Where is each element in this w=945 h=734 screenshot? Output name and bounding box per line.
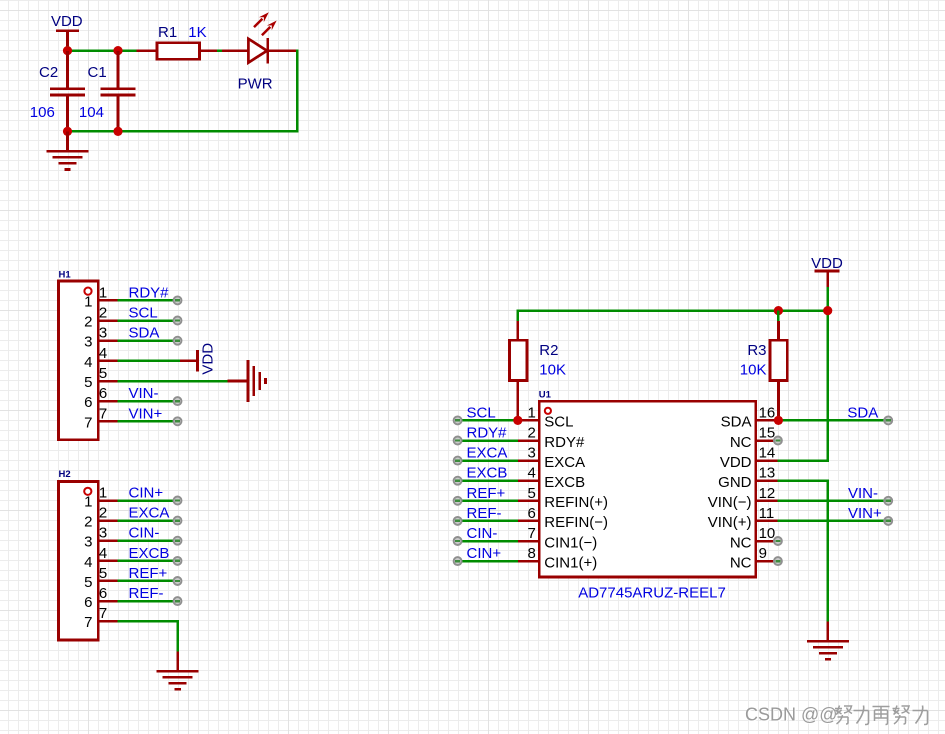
power symbol VDD (rotated, H1 pin4) bbox=[180, 343, 217, 375]
svg-text:CIN1(+): CIN1(+) bbox=[544, 554, 597, 571]
pin pad H2-2 bbox=[174, 517, 182, 525]
U1 pin 5 (REFIN(+)) bbox=[518, 485, 608, 511]
resistor R2 bbox=[510, 321, 527, 420]
H1 pin 4 bbox=[84, 345, 117, 371]
svg-text:CIN-: CIN- bbox=[129, 525, 160, 542]
junction R3/pin16 bbox=[774, 416, 783, 425]
wire VDD rail horizontal bbox=[517, 309, 829, 312]
svg-text:NC: NC bbox=[730, 554, 752, 571]
svg-text:10: 10 bbox=[759, 525, 776, 542]
wire H2 pin 7 to ground bbox=[118, 620, 179, 623]
ground lead bbox=[228, 380, 247, 383]
svg-text:6: 6 bbox=[527, 505, 535, 522]
H2 pin 5 bbox=[84, 565, 117, 591]
svg-text:CIN+: CIN+ bbox=[129, 485, 164, 502]
svg-text:VIN-: VIN- bbox=[129, 385, 159, 402]
wire VIN+ (pin11) bbox=[777, 520, 888, 523]
capacitor C1 bbox=[101, 51, 136, 131]
wire H1 pin 4 to VDD bbox=[118, 360, 180, 363]
svg-text:VIN-: VIN- bbox=[848, 485, 878, 502]
svg-text:SCL: SCL bbox=[544, 414, 573, 431]
U1 pin 14 (VDD) bbox=[720, 445, 777, 471]
svg-text:1: 1 bbox=[527, 404, 535, 421]
pin pad H2-6 bbox=[174, 597, 182, 605]
junction rail/R3 bbox=[774, 306, 783, 315]
svg-text:3: 3 bbox=[527, 445, 535, 462]
wire VDD (pin14) bbox=[777, 459, 829, 462]
svg-text:R3: R3 bbox=[747, 342, 766, 359]
svg-text:6: 6 bbox=[99, 385, 107, 402]
U1 pin 15 (NC) bbox=[730, 425, 777, 451]
wire H1 pin 1 bbox=[118, 299, 178, 302]
svg-text:106: 106 bbox=[30, 104, 55, 121]
U1 pin 12 (VIN(−)) bbox=[708, 485, 778, 511]
svg-text:VIN+: VIN+ bbox=[129, 405, 163, 422]
pin pad U1-15 bbox=[774, 437, 782, 445]
ground lead bbox=[176, 652, 179, 670]
wire U1 pin 4 bbox=[458, 479, 518, 482]
pin pad H2-5 bbox=[174, 577, 182, 585]
ground (below H2) bbox=[157, 670, 199, 691]
U1 pin 7 (CIN1(−)) bbox=[518, 525, 597, 551]
connector H2 bbox=[58, 482, 98, 641]
svg-text:VIN(+): VIN(+) bbox=[708, 514, 752, 531]
H1 pin 1 mark bbox=[84, 288, 91, 295]
pin pad H1-1 bbox=[174, 296, 182, 304]
power symbol VDD (top-right) bbox=[811, 255, 843, 289]
svg-text:H2: H2 bbox=[59, 469, 71, 480]
U1 pin 1 (SCL) bbox=[518, 404, 574, 430]
svg-text:RDY#: RDY# bbox=[467, 425, 508, 442]
capacitor C2 bbox=[50, 51, 85, 131]
svg-text:SCL: SCL bbox=[129, 305, 158, 322]
svg-text:16: 16 bbox=[759, 404, 776, 421]
svg-text:1: 1 bbox=[84, 293, 92, 310]
svg-text:REFIN(+): REFIN(+) bbox=[544, 494, 608, 511]
svg-text:7: 7 bbox=[527, 525, 535, 542]
pin pad U1-7 bbox=[454, 537, 462, 545]
resistor R3 bbox=[770, 321, 787, 420]
H2 pin 6 bbox=[84, 585, 117, 611]
U1 pin 3 (EXCA) bbox=[518, 445, 585, 471]
connector H1 bbox=[58, 281, 98, 440]
ground (bottom right) bbox=[807, 640, 849, 661]
wire bottom return bbox=[66, 130, 298, 133]
svg-text:4: 4 bbox=[99, 545, 107, 562]
svg-text:5: 5 bbox=[99, 565, 107, 582]
svg-text:4: 4 bbox=[527, 465, 535, 482]
U1 pin 9 (NC) bbox=[730, 545, 777, 571]
svg-text:1: 1 bbox=[84, 494, 92, 511]
svg-text:H1: H1 bbox=[59, 269, 72, 280]
U1 pin 1 mark bbox=[545, 408, 551, 414]
svg-text:3: 3 bbox=[84, 334, 92, 351]
pin pad H1-2 bbox=[174, 317, 182, 325]
pin pad H2-3 bbox=[174, 537, 182, 545]
svg-text:REF+: REF+ bbox=[129, 565, 168, 582]
wire rail to R3 bbox=[777, 311, 780, 322]
wire U1 pin 2 bbox=[458, 439, 518, 442]
svg-text:5: 5 bbox=[527, 485, 535, 502]
svg-text:PWR: PWR bbox=[238, 75, 273, 92]
svg-text:R1: R1 bbox=[158, 24, 177, 41]
wire H1 pin 7 bbox=[118, 420, 178, 423]
op-amp U1 body bbox=[539, 401, 756, 577]
U1 pin 8 (CIN1(+)) bbox=[518, 545, 597, 571]
svg-text:5: 5 bbox=[84, 374, 92, 391]
junction rail/VDD bbox=[823, 306, 832, 315]
pin pad U1-2 bbox=[454, 437, 462, 445]
svg-text:7: 7 bbox=[84, 614, 92, 631]
svg-text:3: 3 bbox=[99, 525, 107, 542]
svg-text:CSDN @@: CSDN @@ bbox=[745, 705, 838, 725]
svg-text:EXCB: EXCB bbox=[467, 465, 508, 482]
svg-text:AD7745ARUZ-REEL7: AD7745ARUZ-REEL7 bbox=[578, 584, 726, 601]
U1 pin 10 (NC) bbox=[730, 525, 777, 551]
svg-text:6: 6 bbox=[99, 585, 107, 602]
wire VDD to C2 top bbox=[66, 46, 69, 51]
pin pad U1-6 bbox=[454, 517, 462, 525]
svg-text:12: 12 bbox=[759, 485, 776, 502]
svg-text:10K: 10K bbox=[740, 361, 767, 378]
svg-text:6: 6 bbox=[84, 394, 92, 411]
wire R1 to LED bbox=[217, 50, 222, 53]
pin pad U1-12 bbox=[884, 497, 892, 505]
resistor R1 bbox=[137, 43, 218, 60]
svg-text:C1: C1 bbox=[88, 64, 107, 81]
svg-text:2: 2 bbox=[99, 505, 107, 522]
wire H2 pin 3 bbox=[118, 539, 178, 542]
pin pad H1-6 bbox=[174, 397, 182, 405]
svg-text:RDY#: RDY# bbox=[544, 434, 585, 451]
svg-text:REF+: REF+ bbox=[467, 485, 506, 502]
U1 pin 6 (REFIN(−)) bbox=[518, 505, 608, 531]
pin pad H2-4 bbox=[174, 557, 182, 565]
wire H2 pin 1 bbox=[118, 499, 178, 502]
svg-text:SCL: SCL bbox=[467, 404, 496, 421]
ground lead (below U1 right) bbox=[826, 622, 829, 640]
svg-text:13: 13 bbox=[759, 465, 776, 482]
svg-text:11: 11 bbox=[759, 505, 775, 522]
wire H1 pin 5 to ground bbox=[118, 380, 228, 383]
svg-text:SDA: SDA bbox=[847, 404, 878, 421]
svg-text:NC: NC bbox=[730, 534, 752, 551]
svg-text:7: 7 bbox=[99, 405, 107, 422]
svg-text:NC: NC bbox=[730, 434, 752, 451]
svg-text:8: 8 bbox=[527, 545, 535, 562]
H1 pin 5 bbox=[84, 365, 117, 391]
svg-text:C2: C2 bbox=[39, 64, 58, 81]
H2 pin 1 bbox=[84, 485, 117, 511]
pin pad U1-8 bbox=[454, 557, 462, 565]
wire GND drop bbox=[826, 481, 829, 622]
svg-text:5: 5 bbox=[84, 574, 92, 591]
svg-text:104: 104 bbox=[79, 104, 104, 121]
wire rail left drop to R2 bbox=[517, 311, 520, 322]
svg-text:R2: R2 bbox=[539, 342, 558, 359]
svg-text:EXCA: EXCA bbox=[544, 454, 585, 471]
wire net VDD top horizontal bbox=[66, 49, 136, 52]
svg-text:EXCB: EXCB bbox=[129, 545, 170, 562]
svg-text:SDA: SDA bbox=[721, 414, 752, 431]
svg-text:6: 6 bbox=[84, 594, 92, 611]
svg-text:14: 14 bbox=[759, 445, 776, 462]
svg-text:7: 7 bbox=[99, 605, 107, 622]
svg-text:EXCA: EXCA bbox=[467, 445, 508, 462]
U1 pin 4 (EXCB) bbox=[518, 465, 585, 491]
junction at C1 top bbox=[113, 46, 122, 55]
junction at C1 bottom bbox=[113, 127, 122, 136]
H1 pin 1 bbox=[84, 284, 117, 310]
junction at C2 top bbox=[63, 46, 72, 55]
ground (right of H1, rotated) bbox=[247, 360, 267, 402]
wire H1 pin 6 bbox=[118, 400, 178, 403]
svg-text:VIN(−): VIN(−) bbox=[708, 494, 752, 511]
H2 pin 4 bbox=[84, 545, 117, 571]
wire H2 pin 2 bbox=[118, 519, 178, 522]
svg-text:2: 2 bbox=[84, 514, 92, 531]
wire SDA (pin16) bbox=[778, 419, 888, 422]
wire U1 pin 1 bbox=[458, 419, 518, 422]
svg-text:EXCB: EXCB bbox=[544, 474, 585, 491]
H1 pin 3 bbox=[84, 325, 117, 351]
wire U1 pin 8 bbox=[458, 560, 518, 563]
pin pad U1-3 bbox=[454, 457, 462, 465]
svg-text:9: 9 bbox=[759, 545, 767, 562]
svg-text:VDD: VDD bbox=[200, 343, 217, 375]
svg-text:CIN+: CIN+ bbox=[467, 545, 502, 562]
svg-text:3: 3 bbox=[84, 534, 92, 551]
svg-text:RDY#: RDY# bbox=[129, 284, 170, 301]
svg-text:VIN+: VIN+ bbox=[848, 505, 882, 522]
svg-text:CIN-: CIN- bbox=[467, 525, 498, 542]
pin pad U1-9 bbox=[774, 557, 782, 565]
wire LED cathode down bbox=[296, 50, 299, 133]
svg-text:2: 2 bbox=[99, 305, 107, 322]
wire GND (pin13) bbox=[777, 479, 829, 482]
svg-text:REF-: REF- bbox=[129, 585, 164, 602]
junction at C2 bottom bbox=[63, 127, 72, 136]
power symbol VDD (top-left) bbox=[51, 13, 83, 48]
LED light arrow 1 bbox=[254, 12, 269, 27]
H2 pin 2 bbox=[84, 505, 117, 531]
ground (below C2) bbox=[47, 150, 89, 171]
H1 pin 7 bbox=[84, 405, 117, 431]
svg-text:EXCA: EXCA bbox=[129, 505, 170, 522]
wire VDD drop to pin14 bbox=[826, 287, 829, 462]
pin pad H1-3 bbox=[174, 337, 182, 345]
svg-text:CIN1(−): CIN1(−) bbox=[544, 534, 597, 551]
svg-text:2: 2 bbox=[527, 425, 535, 442]
svg-text:1: 1 bbox=[99, 284, 107, 301]
pin pad U1-11 bbox=[884, 517, 892, 525]
LED PWR bbox=[222, 38, 298, 63]
svg-text:4: 4 bbox=[99, 345, 107, 362]
wire U1 pin 6 bbox=[458, 520, 518, 523]
svg-text:GND: GND bbox=[718, 474, 752, 491]
H2 pin 3 bbox=[84, 525, 117, 551]
wire H1 pin 2 bbox=[118, 319, 178, 322]
svg-text:5: 5 bbox=[99, 365, 107, 382]
junction R2/pin1 bbox=[513, 416, 522, 425]
watermark glyphs bbox=[835, 706, 928, 725]
wire U1 pin 5 bbox=[458, 500, 518, 503]
U1 pin 16 (SDA) bbox=[721, 404, 778, 430]
svg-text:1: 1 bbox=[99, 485, 107, 502]
wire H2 pin 5 bbox=[118, 580, 178, 583]
U1 pin 11 (VIN(+)) bbox=[708, 505, 778, 531]
pin pad U1-1 bbox=[454, 416, 462, 424]
H2 pin 7 bbox=[84, 605, 117, 631]
svg-text:10K: 10K bbox=[539, 361, 566, 378]
wire C2 bottom to ground bbox=[66, 131, 69, 150]
wire H2 pin 6 bbox=[118, 600, 178, 603]
wire H2 pin 4 bbox=[118, 560, 178, 563]
H1 pin 6 bbox=[84, 385, 117, 411]
svg-text:3: 3 bbox=[99, 325, 107, 342]
svg-text:4: 4 bbox=[84, 554, 92, 571]
H1 pin 2 bbox=[84, 305, 117, 331]
svg-text:VDD: VDD bbox=[51, 13, 83, 30]
pin pad H1-7 bbox=[174, 417, 182, 425]
pin pad U1-16 bbox=[884, 416, 892, 424]
wire U1 pin 3 bbox=[458, 459, 518, 462]
pin pad H2-1 bbox=[174, 497, 182, 505]
pin pad U1-10 bbox=[774, 537, 782, 545]
U1 pin 13 (GND) bbox=[718, 465, 777, 491]
svg-text:VDD: VDD bbox=[811, 255, 843, 272]
H2 pin 1 mark bbox=[84, 488, 91, 495]
LED light arrow 2 bbox=[262, 21, 277, 36]
wire H1 pin 3 bbox=[118, 339, 178, 342]
svg-text:4: 4 bbox=[84, 354, 92, 371]
svg-text:1K: 1K bbox=[188, 24, 206, 41]
U1 pin 2 (RDY#) bbox=[518, 425, 585, 451]
svg-text:SDA: SDA bbox=[129, 325, 160, 342]
svg-text:U1: U1 bbox=[539, 390, 552, 401]
svg-text:7: 7 bbox=[84, 414, 92, 431]
wire VIN- (pin12) bbox=[777, 500, 888, 503]
svg-text:VDD: VDD bbox=[720, 454, 752, 471]
svg-text:2: 2 bbox=[84, 314, 92, 331]
svg-text:15: 15 bbox=[759, 425, 776, 442]
svg-text:REF-: REF- bbox=[467, 505, 502, 522]
watermark CSDN bbox=[745, 705, 839, 726]
pin pad U1-4 bbox=[454, 477, 462, 485]
svg-text:REFIN(−): REFIN(−) bbox=[544, 514, 608, 531]
wire U1 pin 7 bbox=[458, 540, 518, 543]
pin pad U1-5 bbox=[454, 497, 462, 505]
